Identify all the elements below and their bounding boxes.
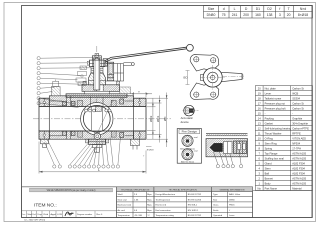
dimension lines D D1 D2 right	[147, 93, 168, 148]
svg-text:Carbon+PTFE: Carbon+PTFE	[292, 126, 309, 130]
svg-text:L: L	[234, 7, 236, 11]
svg-text:EN 558-1: EN 558-1	[188, 205, 198, 207]
bottom boss bolts	[85, 139, 88, 143]
logo	[65, 212, 74, 216]
gland bolts	[87, 61, 89, 65]
right neck bottom boss	[130, 139, 139, 145]
svg-text:After fire (Seat): After fire (Seat)	[181, 161, 194, 164]
svg-text:Ball: Ball	[265, 171, 270, 175]
svg-text:Test/Inspection: Test/Inspection	[156, 198, 171, 201]
svg-text:241: 241	[232, 13, 238, 17]
svg-text:Carbon St: Carbon St	[292, 86, 304, 90]
svg-text:VALVE SPECIFICATION (as per tr: VALVE SPECIFICATION (as per treaty or or…	[47, 189, 96, 192]
seat detail dark insert	[210, 143, 223, 151]
svg-text:NP304: NP304	[292, 141, 300, 145]
svg-text:Design/Manufacture: Design/Manufacture	[156, 193, 176, 196]
left flange bottom plug	[41, 139, 49, 144]
svg-text:ISO: ISO	[183, 76, 187, 80]
injection fitting on neck	[53, 81, 59, 86]
bracket support hatch	[120, 87, 131, 94]
svg-text:Self-lubricating bearing: Self-lubricating bearing	[265, 126, 292, 130]
svg-text:A182 F304: A182 F304	[292, 161, 305, 165]
handle hub	[108, 62, 114, 80]
svg-text:ASTM A105: ASTM A105	[292, 156, 306, 160]
svg-text:ØD1: ØD1	[156, 115, 160, 122]
svg-text:seal: seal	[194, 137, 198, 139]
svg-text:WCB: WCB	[292, 91, 298, 95]
svg-text:Del: Del	[33, 214, 37, 216]
bonnet neck	[89, 73, 106, 85]
seat detail balloons	[214, 152, 243, 168]
seat follower verticals	[90, 97, 92, 107]
svg-text:Shell: Shell	[118, 194, 123, 196]
svg-text:304+Graphite: 304+Graphite	[292, 121, 308, 125]
svg-text:End connection: End connection	[156, 209, 172, 212]
lock tab	[124, 62, 132, 64]
svg-text:End to end: End to end	[156, 204, 167, 207]
svg-text:200: 200	[243, 13, 249, 17]
bottom center boss	[89, 139, 106, 144]
left balloon callouts	[37, 57, 92, 108]
mounting plate slab	[82, 85, 120, 92]
svg-text:BALL Valve: BALL Valve	[229, 193, 241, 196]
svg-text:BS EN 12266: BS EN 12266	[188, 199, 202, 201]
packing rings	[91, 67, 103, 73]
svg-text:SS304: SS304	[292, 96, 300, 100]
general information table	[212, 187, 253, 218]
vertical centerline	[96, 46, 98, 152]
stop bracket	[105, 64, 124, 82]
svg-text:138: 138	[267, 13, 273, 17]
bottom trunnion	[94, 133, 100, 139]
body cavity around ball (white)	[81, 103, 113, 135]
svg-text:f: f	[279, 7, 280, 11]
svg-text:Rev 0: Rev 0	[97, 214, 103, 216]
diagonal leader through ball	[96, 101, 113, 137]
seat detail top band	[206, 133, 248, 135]
svg-text:Pressure plug bolt: Pressure plug bolt	[265, 106, 286, 110]
technical specification table A	[117, 187, 155, 218]
svg-text:ASTM A105: ASTM A105	[292, 151, 306, 155]
technical specification table B	[154, 187, 212, 218]
horizontal centerline	[33, 118, 171, 120]
bonnet flange in gap	[85, 91, 110, 94]
stem	[94, 58, 100, 90]
svg-text:Temperature: Temperature	[118, 214, 131, 217]
svg-text:T: T	[288, 7, 290, 11]
svg-text:Scale: Scale	[213, 210, 219, 212]
thrust washers	[85, 109, 88, 112]
svg-text:A182 F304: A182 F304	[292, 166, 305, 170]
svg-text:Gland: Gland	[265, 161, 272, 165]
ball	[83, 101, 112, 137]
dimension table top-right	[204, 6, 313, 19]
body joint lines	[66, 96, 68, 107]
svg-text:seal: seal	[194, 151, 198, 153]
right flange	[134, 98, 146, 139]
fire design detail circle 2	[182, 149, 193, 160]
stem bottom tang	[96, 106, 102, 112]
svg-text:L: L	[98, 168, 100, 172]
svg-text:Spring: Spring	[265, 146, 273, 150]
dimension table text	[207, 7, 309, 17]
svg-text:Lever: Lever	[229, 214, 235, 217]
svg-text:PN16: PN16	[229, 205, 235, 207]
svg-text:Lever: Lever	[265, 91, 272, 95]
svg-text:Gasket: Gasket	[265, 121, 273, 125]
svg-text:Degree number: Degree number	[77, 213, 92, 216]
svg-text:Backseat seal: Backseat seal	[118, 204, 132, 207]
svg-text:Pressure plug nut: Pressure plug nut	[265, 101, 286, 105]
svg-text:8×Ø18: 8×Ø18	[147, 149, 154, 152]
svg-text:ASTM A105: ASTM A105	[292, 181, 306, 185]
title block bottom strip	[22, 211, 117, 218]
svg-text:Graphite: Graphite	[292, 116, 303, 120]
top view mounting plate upper	[190, 55, 219, 71]
f bolt callout bottom right	[146, 146, 152, 148]
joint bolts right	[120, 99, 124, 104]
svg-text:Crs. 2002 CHT (Print): Crs. 2002 CHT (Print)	[24, 218, 45, 221]
svg-text:Chkd: Chkd	[43, 214, 49, 216]
svg-text:Air seal: Air seal	[118, 209, 126, 212]
svg-text:Stem: Stem	[265, 166, 271, 170]
dimension L bottom	[39, 142, 146, 174]
svg-text:160: 160	[255, 13, 261, 17]
parts list table	[255, 86, 312, 191]
handle yoke	[103, 59, 107, 67]
svg-text:Stuffing box seal: Stuffing box seal	[265, 156, 285, 160]
right seat ring	[111, 100, 116, 106]
right flange bolt holes	[139, 101, 141, 103]
top view mounting plate lower	[190, 83, 219, 99]
svg-text:Type: Type	[213, 194, 219, 196]
left flange bolt holes	[43, 101, 45, 103]
svg-text:ØD2: ØD2	[149, 115, 153, 122]
svg-text:Packing: Packing	[265, 116, 275, 120]
svg-text:Material: Material	[292, 186, 302, 190]
left seat ring	[78, 100, 83, 106]
seat detail main box	[206, 139, 248, 157]
svg-text:Stem Ring: Stem Ring	[265, 141, 278, 145]
svg-text:75: 75	[222, 13, 226, 17]
svg-text:Carbon St: Carbon St	[292, 101, 304, 105]
svg-text:RPTFE: RPTFE	[292, 131, 301, 135]
svg-text:17-7PH: 17-7PH	[292, 146, 301, 150]
svg-text:DN80: DN80	[229, 199, 235, 201]
top view lever bar	[222, 72, 243, 81]
handle lever	[105, 47, 187, 61]
bottom balloon callouts	[45, 137, 121, 169]
svg-text:D2: D2	[267, 7, 271, 11]
title block top line	[22, 186, 253, 188]
body upper wall	[49, 96, 133, 107]
body lower wall	[49, 131, 133, 139]
svg-text:20: 20	[287, 13, 291, 17]
fire design detail circle 1	[182, 135, 193, 146]
svg-text:Carbon St: Carbon St	[292, 106, 304, 110]
joint bolts left	[62, 101, 66, 105]
T dim above right flange	[129, 92, 153, 97]
svg-text:ASTM A105: ASTM A105	[292, 176, 306, 180]
svg-text:Top Flange: Top Flange	[265, 151, 278, 155]
svg-text:Operated: Operated	[213, 214, 223, 217]
bore lines	[39, 105, 146, 107]
valve specification shaded band	[30, 188, 113, 192]
svg-text:-: -	[265, 112, 266, 115]
svg-text:3: 3	[279, 13, 281, 17]
seat detail right block	[234, 141, 247, 154]
svg-text:O-Ring: O-Ring	[265, 136, 274, 140]
svg-text:d: d	[223, 7, 225, 11]
svg-text:D1: D1	[256, 7, 260, 11]
parts list text	[258, 86, 310, 190]
empty box below parts list	[253, 191, 313, 218]
svg-text:Appd: Appd	[51, 213, 57, 216]
svg-text:Bonnet: Bonnet	[265, 176, 274, 180]
svg-text:Temperature rating: Temperature rating	[156, 214, 175, 217]
svg-text:-: -	[292, 112, 293, 115]
stem cap nut	[92, 56, 101, 60]
svg-text:TECHNICAL SPECIFICATION: TECHNICAL SPECIFICATION	[169, 188, 198, 191]
svg-text:No: No	[258, 186, 262, 190]
title block left box	[22, 187, 117, 218]
svg-text:ITEM NO.:: ITEM NO.:	[34, 203, 57, 209]
svg-text:DN80: DN80	[207, 13, 216, 17]
svg-text:EN 1092-1: EN 1092-1	[188, 210, 199, 212]
top view flange circles	[203, 68, 222, 87]
svg-text:Nut, plate: Nut, plate	[265, 86, 277, 90]
plate bolts	[83, 81, 86, 85]
top view bolt holes	[194, 57, 199, 62]
svg-text:-20..180: -20..180	[134, 215, 143, 217]
svg-text:Size: Size	[208, 7, 215, 11]
small parts left of stem	[76, 78, 86, 82]
bracket bolt	[131, 63, 134, 66]
svg-text:VITON AED: VITON AED	[292, 136, 306, 140]
svg-text:Part Name: Part Name	[265, 186, 278, 190]
svg-text:A182 F304: A182 F304	[292, 171, 305, 175]
left flange	[39, 98, 49, 139]
svg-text:Class: Class	[213, 205, 219, 207]
gland flange	[89, 60, 105, 67]
seat detail white pocket	[224, 142, 233, 154]
ball bottom tang	[95, 131, 99, 134]
top view left tab	[200, 75, 203, 81]
svg-text:Tailtwist screw: Tailtwist screw	[265, 96, 282, 100]
svg-text:N×d: N×d	[300, 7, 306, 11]
svg-text:BS EN 17292: BS EN 17292	[188, 194, 202, 196]
handle ball end	[187, 44, 194, 51]
svg-text:BS EN 17292: BS EN 17292	[188, 215, 202, 217]
svg-text:°C: °C	[147, 215, 150, 217]
stem cap cross mark	[94, 56, 100, 60]
svg-text:TECHNICAL SPECIFICATION: TECHNICAL SPECIFICATION	[121, 188, 150, 191]
svg-text:Thrust Washer: Thrust Washer	[265, 131, 282, 135]
svg-text:Seat seal: Seat seal	[118, 198, 128, 201]
svg-text:8×Ø18: 8×Ø18	[298, 13, 308, 17]
svg-text:Body: Body	[265, 181, 272, 185]
svg-text:device: device	[181, 120, 190, 124]
svg-text:Fire Design: Fire Design	[182, 130, 198, 134]
body neck bolt lines	[49, 100, 62, 102]
body center raised top	[66, 94, 127, 98]
svg-text:Disp: Disp	[38, 214, 43, 216]
svg-text:GENERAL INFORMATION: GENERAL INFORMATION	[220, 188, 245, 191]
